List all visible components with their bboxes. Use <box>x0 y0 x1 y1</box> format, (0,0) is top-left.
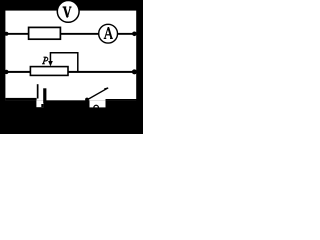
hinge arc under switch <box>94 105 99 107</box>
battery negative electrode (short thick) <box>43 88 46 103</box>
junction dot right of ammeter branch <box>132 32 137 37</box>
top bus bar (top wire) <box>0 0 143 11</box>
junction dot left of rheostat wire <box>4 70 8 74</box>
background <box>0 0 143 134</box>
label P <box>42 57 48 64</box>
switch blade tip tick <box>104 88 108 89</box>
white window under switch <box>90 100 106 107</box>
wire segment right of switch <box>106 99 137 100</box>
step in battery gap <box>41 104 43 107</box>
rheostat R2 box <box>30 67 68 76</box>
bottom bus bar (bottom wire) <box>0 100 143 134</box>
wire segment left of battery <box>5 98 36 101</box>
middle wire (ammeter branch) <box>5 33 136 35</box>
switch pivot dot <box>85 98 89 102</box>
ammeter A1 circle <box>99 24 118 43</box>
voltmeter V1 circle <box>57 1 79 23</box>
left rail wire <box>0 0 5 134</box>
ammeter A1 label <box>104 27 113 39</box>
voltmeter V1 label <box>63 6 72 17</box>
battery positive electrode (long) <box>37 84 39 98</box>
junction dot left of ammeter branch <box>4 32 8 36</box>
rheostat slider tap wire <box>50 53 77 72</box>
rheostat wire right <box>68 71 136 73</box>
resistor R1 box <box>29 27 61 39</box>
junction dot right of rheostat wire <box>132 69 137 74</box>
slider arrow head <box>48 61 53 66</box>
slider arrow shaft <box>50 52 52 62</box>
right rail wire <box>136 0 143 134</box>
white gap of battery <box>36 100 43 107</box>
switch blade <box>87 88 108 100</box>
rheostat wire left <box>5 71 31 73</box>
